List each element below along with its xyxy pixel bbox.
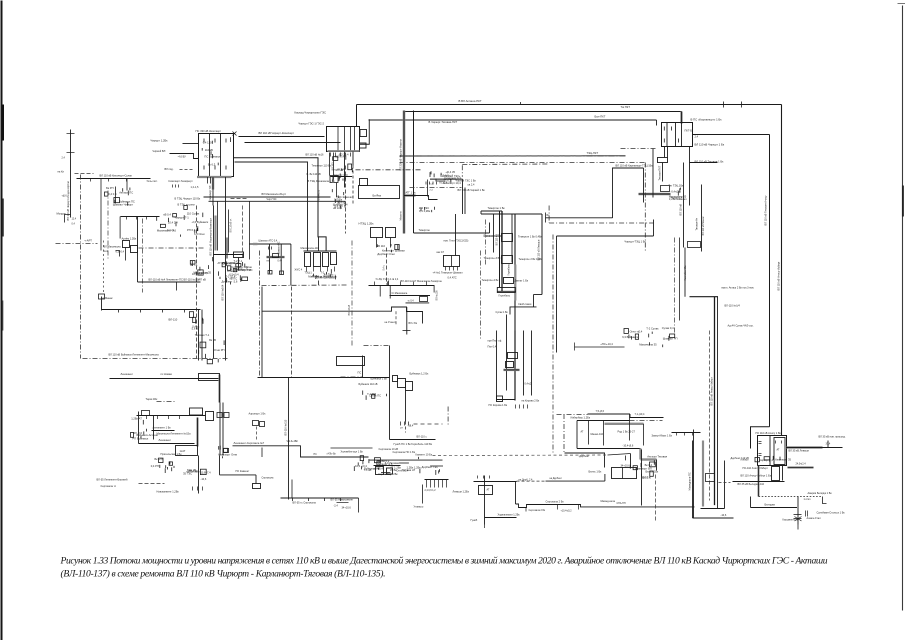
wire dash-dot Buinaksk-Leninkent y358 xyxy=(83,353,228,359)
svg-text:ВЛ №105: ВЛ №105 xyxy=(318,189,321,200)
svg-text:В ВЛ Акташи-ПКТ: В ВЛ Акташи-ПКТ xyxy=(459,99,482,103)
svg-text:0,4 АТС: 0,4 АТС xyxy=(448,276,457,280)
svg-text:на Учкент: на Учкент xyxy=(385,321,397,324)
svg-text:ВЛ с Бк: ВЛ с Бк xyxy=(409,322,418,325)
svg-text:на Манас: на Манас xyxy=(102,296,114,300)
cluster below x198 xyxy=(200,342,206,348)
svg-text:Шамхал АТС 0,4: Шамхал АТС 0,4 xyxy=(259,240,278,243)
svg-text:(ВЛ-110-137) в схеме ремонта: (ВЛ-110-137) в схеме ремонта ВЛ 110 кВ Ч… xyxy=(61,569,386,580)
wire Miatli vertical x403 xyxy=(399,111,405,234)
labels mid-right xyxy=(722,286,755,328)
wire Belidzhi line y496 xyxy=(759,491,833,504)
wire dash-dot x447 xyxy=(447,407,449,427)
svg-text:ВЛ 110 №104: ВЛ 110 №104 xyxy=(221,284,225,300)
svg-text:Сев-ПС: Сев-ПС xyxy=(223,262,232,266)
svg-text:0,4+j2: 0,4+j2 xyxy=(525,383,532,386)
svg-text:Утамыш: Утамыш xyxy=(414,505,424,509)
wire dash x552 xyxy=(552,235,554,454)
svg-text:ПС: ПС xyxy=(314,454,318,456)
wire x541 elbow xyxy=(496,214,543,315)
substation Gergebil boxes xyxy=(482,234,544,298)
svg-text:Шамхал-ПС: Шамхал-ПС xyxy=(279,241,281,254)
wire bus y217.3 xyxy=(546,213,647,244)
svg-text:Тяговая-Ач: Тяговая-Ач xyxy=(696,217,699,230)
svg-text:Т-2 Сулак: Т-2 Сулак xyxy=(646,326,659,330)
wires Chiryurt right drops x329/x333 xyxy=(330,153,339,198)
svg-text:Махачкала 35: Махачкала 35 xyxy=(639,343,657,347)
wire central verticals xyxy=(481,211,516,341)
wire Novaya bus y378 xyxy=(110,372,220,403)
svg-text:«ЧЭ»-Бк: «ЧЭ»-Бк xyxy=(327,454,337,456)
wire Artyom bus y216 xyxy=(121,217,160,283)
svg-text:37,4: 37,4 xyxy=(826,443,831,446)
svg-text:ВЛ 110 кВ: ВЛ 110 кВ xyxy=(349,304,351,315)
svg-text:110 кВ: 110 кВ xyxy=(205,148,213,152)
svg-text:Буйнакск Акташи: Буйнакск Акташи xyxy=(137,433,159,437)
svg-text:Ст.Махачкала: Ст.Махачкала xyxy=(392,292,408,295)
wire grey bar y467 xyxy=(788,463,814,468)
svg-text:110 ГЭС: 110 ГЭС xyxy=(419,206,429,210)
svg-text:Чиркей ВЛ: Чиркей ВЛ xyxy=(153,149,166,153)
svg-text:ПС 330 кВ Кизилюрт: ПС 330 кВ Кизилюрт xyxy=(196,129,222,133)
svg-text:на Ки: на Ки xyxy=(58,170,65,174)
labels right of Karlanyurt taps xyxy=(669,184,684,200)
svg-text:АТ: АТ xyxy=(487,489,490,492)
svg-text:Буйнакск 110 кВ: Буйнакск 110 кВ xyxy=(359,382,378,386)
svg-text:ВЛ 110 кВ Карланюрт-ТЭЦ 1Бк: ВЛ 110 кВ Карланюрт-ТЭЦ 1Бк xyxy=(616,164,654,168)
svg-text:ПС-110 Ачису-Изберг: ПС-110 Ачису-Изберг xyxy=(743,466,768,470)
svg-text:Шамхал 0,4: Шамхал 0,4 xyxy=(333,203,348,207)
substation Karlanyurt box xyxy=(662,118,723,147)
svg-text:Кизилюрт Огни: Кизилюрт Огни xyxy=(218,452,237,456)
svg-text:1,2-1,5: 1,2-1,5 xyxy=(191,185,200,189)
svg-text:Буйнакск ПС: Буйнакск ПС xyxy=(119,200,135,204)
wire dashed x386 xyxy=(383,248,387,285)
svg-text:Темиргое 1 Бк: Темиргое 1 Бк xyxy=(488,206,506,210)
svg-text:СПА-НН: СПА-НН xyxy=(617,502,626,505)
cluster mid centre (Sev PS) xyxy=(104,241,253,295)
svg-text:ВЛ Махачкала 20+j4: ВЛ Махачкала 20+j4 xyxy=(262,192,287,196)
svg-text:Огни +j0,4: Огни +j0,4 xyxy=(630,329,643,333)
svg-text:ВЛ 110 Ачису-Изберг 1 Бк: ВЛ 110 Ачису-Изберг 1 Бк xyxy=(741,474,772,478)
svg-text:ВЛ-110: ВЛ-110 xyxy=(169,318,178,322)
svg-text:2,4 0,6 1,2: 2,4 0,6 1,2 xyxy=(425,490,437,492)
svg-text:Каякент 10 Бк: Каякент 10 Бк xyxy=(416,453,433,457)
svg-text:13,8+7,4: 13,8+7,4 xyxy=(201,471,212,475)
wire buses Kizilyurt-Chiryurt xyxy=(239,131,341,143)
svg-text:Дербент 110 кВ: Дербент 110 кВ xyxy=(731,456,750,460)
substation Derbent node box xyxy=(589,454,660,479)
svg-text:-10,6: -10,6 xyxy=(721,513,727,517)
svg-text:Чирюрт 2,4: Чирюрт 2,4 xyxy=(759,458,773,462)
svg-text:Сергокала 2 Бк: Сергокала 2 Бк xyxy=(546,500,565,504)
svg-text:Узлы пит.: Узлы пит. xyxy=(147,179,158,183)
labels left Makhachkala xyxy=(104,245,122,254)
svg-text:ТЭЦ-ПКТ: ТЭЦ-ПКТ xyxy=(587,151,599,155)
svg-text:Тяговая Т-1: Тяговая Т-1 xyxy=(195,333,210,337)
wire dash-dot y164 and Chirkey line y178.6 xyxy=(430,164,549,214)
svg-text:на Дербент: на Дербент xyxy=(550,478,563,480)
wire dash-dot y285 xyxy=(262,284,348,287)
svg-text:ВЛ 110 кВ Тяговая-Ачису: ВЛ 110 кВ Тяговая-Ачису xyxy=(764,195,768,226)
svg-text:Белиджи: Белиджи xyxy=(765,503,776,507)
wire Belidzhi line y507 xyxy=(751,497,798,508)
svg-text:Буйнакск 1 Бк: Буйнакск 1 Бк xyxy=(371,377,388,381)
svg-text:Чирюрт 1,2Бк: Чирюрт 1,2Бк xyxy=(151,139,169,143)
svg-text:Сергокала 10 кВ: Сергокала 10 кВ xyxy=(379,447,399,451)
svg-text:св Т-1: св Т-1 xyxy=(190,263,198,267)
svg-text:ВЛ 110 кВ Леваши: ВЛ 110 кВ Леваши xyxy=(538,239,541,260)
wire grey bar y447 xyxy=(787,435,846,453)
svg-text:ГЭС кВ: ГЭС кВ xyxy=(334,168,343,172)
svg-text:Мамедкала-ПС: Мамедкала-ПС xyxy=(688,472,692,490)
svg-text:Сулак 0,4: Сулак 0,4 xyxy=(662,326,674,330)
svg-text:Буйнакск РП: Буйнакск РП xyxy=(364,467,380,471)
svg-text:Темиргое-3 Бк: Темиргое-3 Бк xyxy=(484,256,502,260)
svg-text:Чирюрт-ТЭЦ 1 Бк: Чирюрт-ТЭЦ 1 Бк xyxy=(625,240,647,244)
substation Izberbash inner box xyxy=(571,414,673,449)
svg-text:ВЛ 110 кВ Чирюрт 1 Бк: ВЛ 110 кВ Чирюрт 1 Бк xyxy=(695,143,725,147)
wire Shamkhal bus y243.5 xyxy=(249,240,303,286)
svg-text:ВЛ-35 Новокаякент: ВЛ-35 Новокаякент xyxy=(331,498,355,502)
wire Halimbekaul labels xyxy=(331,448,373,454)
cluster bottom far left labels xyxy=(331,498,355,508)
svg-text:110 0,4: 110 0,4 xyxy=(335,154,344,158)
svg-text:Гуниб: Гуниб xyxy=(471,518,478,522)
svg-text:-2,6 кВ: -2,6 кВ xyxy=(191,327,200,331)
svg-text:ВЛ 110 кВ уч.: ВЛ 110 кВ уч. xyxy=(231,218,233,233)
svg-text:ВЛ-110 №1/4: ВЛ-110 №1/4 xyxy=(725,304,741,308)
wire top bus 3 y119.5 xyxy=(369,115,657,126)
wire dash-dot y248 xyxy=(139,247,204,249)
svg-text:-10,6: -10,6 xyxy=(201,477,207,481)
svg-text:при Пке т.ф.: при Пке т.ф. xyxy=(488,339,503,343)
svg-text:Махачкала-Ленинкент №15а: Махачкала-Ленинкент №15а xyxy=(157,432,192,436)
wire south elbow double x307/x317 xyxy=(234,153,336,252)
svg-text:Ад-АЧ Сулак ЧАЭ стр.: Ад-АЧ Сулак ЧАЭ стр. xyxy=(728,324,754,328)
svg-text:ГЭС Шамхал: ГЭС Шамхал xyxy=(337,195,354,199)
svg-text:Кизилюрт-Темирюрт: Кизилюрт-Темирюрт xyxy=(169,179,194,183)
svg-text:Тяг.ПКТ: Тяг.ПКТ xyxy=(621,105,631,109)
wire bus y465 with boxes xyxy=(374,447,401,475)
svg-text:В. Бк 110 кВ: В. Бк 110 кВ xyxy=(307,172,321,176)
svg-text:Кизилюрт 35: Кизилюрт 35 xyxy=(775,458,791,462)
svg-text:1 откл: 1 откл xyxy=(804,498,812,501)
substation column x641 xyxy=(621,450,668,521)
substation big cluster Leninkent xyxy=(131,397,369,468)
wire elbow Karlanyurt-TETs xyxy=(613,164,654,219)
svg-text:-10,4-j9,6: -10,4-j9,6 xyxy=(623,444,634,448)
svg-text:Ленинкент: Ленинкент xyxy=(159,438,172,442)
wire Izberbash bottom elbow xyxy=(565,449,657,471)
svg-text:-18,4: -18,4 xyxy=(408,424,414,428)
svg-text:Темиргое 1 Бк 0,4Бк: Темиргое 1 Бк 0,4Бк xyxy=(518,235,543,239)
svg-text:пс Новая: пс Новая xyxy=(161,372,173,376)
wire top bus 2 y111 xyxy=(403,112,682,124)
cluster below Kizilyurt xyxy=(160,224,165,227)
box left bottom x336 xyxy=(337,357,365,366)
svg-text:Тяговая ПКТ: Тяговая ПКТ xyxy=(658,165,662,180)
svg-text:0,4 с: 0,4 с xyxy=(383,264,386,270)
svg-text:кВ 110: кВ 110 xyxy=(377,244,386,248)
wire bus y176 left xyxy=(331,177,353,180)
svg-text:Закир-Айзах 1 Бк: Закир-Айзах 1 Бк xyxy=(652,434,673,438)
wire VL 110 kV top bus to Aktashi y104 xyxy=(357,99,782,109)
svg-text:Т-1 110: Т-1 110 xyxy=(367,392,377,396)
svg-text:АТ: АТ xyxy=(777,449,780,452)
svg-text:Кизилюрт ВЛ: Кизилюрт ВЛ xyxy=(209,185,212,200)
wire x693 vertical xyxy=(672,430,701,519)
svg-text:Рад 1 Бк 23-27: Рад 1 Бк 23-27 xyxy=(618,430,636,434)
substation bottom-left tail xyxy=(97,456,212,494)
bus group PS Kirova verticals xyxy=(488,315,541,409)
cluster left column below Chiryurt xyxy=(332,153,354,211)
svg-text:Чирюрт Т-1: Чирюрт Т-1 xyxy=(175,216,190,220)
substation PS Achisu xyxy=(756,431,787,466)
svg-text:Избербаш 1,2Бк: Избербаш 1,2Бк xyxy=(571,416,591,420)
svg-text:тс 0,4: тс 0,4 xyxy=(408,300,415,302)
wire staircase y306-311 xyxy=(262,307,423,335)
wire dash vertical x351.5 xyxy=(349,241,352,346)
svg-text:ВЛ 110 кВ Манас: ВЛ 110 кВ Манас xyxy=(702,216,705,236)
substation small box x359 y178 xyxy=(359,179,400,199)
svg-text:0,4 РП: 0,4 РП xyxy=(151,464,159,468)
svg-text:Сулак Т-1: Сулак Т-1 xyxy=(324,274,337,278)
substation Kizilyurt-330 box xyxy=(196,129,237,184)
svg-text:6,3 Тяговая: 6,3 Тяговая xyxy=(385,461,400,465)
svg-text:Бк 6,3: Бк 6,3 xyxy=(208,162,216,166)
svg-text:Манас-110: Манас-110 xyxy=(591,432,604,436)
svg-text:АТГ 1 Бк: АТГ 1 Бк xyxy=(406,191,417,195)
svg-text:ВЛ-35 тс Сергокала: ВЛ-35 тс Сергокала xyxy=(293,501,317,505)
svg-text:ВЛ 110 кВ Махачкала-Кизилюрт: ВЛ 110 кВ Махачкала-Кизилюрт xyxy=(209,217,213,255)
svg-text:-4,6 ВУ: -4,6 ВУ xyxy=(178,155,187,159)
wire dashed x291 xyxy=(291,287,293,378)
wire tick row y479 xyxy=(379,472,449,492)
svg-text:«ПС»-10,4: «ПС»-10,4 xyxy=(601,342,614,346)
svg-text:Ашага-Стал: Ашага-Стал xyxy=(807,516,822,520)
svg-text:Каскад Чирюртских ГЭС: Каскад Чирюртских ГЭС xyxy=(295,111,327,115)
svg-text:ВЛ 35 кВ нов. присоед.: ВЛ 35 кВ нов. присоед. xyxy=(819,435,846,439)
cluster x195 y310 xyxy=(189,310,203,361)
svg-text:ПС 0,4: ПС 0,4 xyxy=(439,181,448,185)
svg-text:Сулейман-Стальск 1 Бк: Сулейман-Стальск 1 Бк xyxy=(817,511,846,515)
svg-text:ВЛ 35 кВ Леваши: ВЛ 35 кВ Леваши xyxy=(789,449,810,453)
svg-text:+j0,4 35: +j0,4 35 xyxy=(445,170,455,174)
svg-text:ПС Буйнакск: ПС Буйнакск xyxy=(204,154,221,158)
svg-text:Новокаякент 1,2Бк: Новокаякент 1,2Бк xyxy=(157,490,180,494)
svg-text:В ТЭЦ Чирюрт 110 Бк: В ТЭЦ Чирюрт 110 Бк xyxy=(175,197,202,201)
substation Temirgoe xyxy=(433,214,469,280)
svg-text:Чирюрт ГЭС-1 ГЭС-2: Чирюрт ГЭС-1 ГЭС-2 xyxy=(299,122,325,126)
svg-text:-2,6 Буйнакск: -2,6 Буйнакск xyxy=(192,220,209,224)
wire verticals x257 x261 xyxy=(260,251,263,378)
svg-text:Акташ 0,4: Акташ 0,4 xyxy=(671,196,683,200)
wire Utamysh xyxy=(414,485,424,509)
wire x362 stub xyxy=(341,356,363,378)
svg-text:ПС 110 кВ Ачису 1 Бк: ПС 110 кВ Ачису 1 Бк xyxy=(756,431,782,435)
svg-text:Сергокала: Сергокала xyxy=(262,477,275,480)
wire bus y377 xyxy=(258,377,390,379)
svg-text:Сергокала тс: Сергокала тс xyxy=(101,484,117,488)
wire Derbent bus y481 xyxy=(719,456,792,486)
wires Kizilyurt below xyxy=(147,177,226,213)
svg-text:Темиргое 110 Бк: Темиргое 110 Бк xyxy=(312,164,332,168)
svg-text:24,0+j2,4: 24,0+j2,4 xyxy=(796,463,807,466)
svg-text:Сергокала 2 Бк: Сергокала 2 Бк xyxy=(529,510,546,512)
wire dashes y423 xyxy=(414,423,443,425)
svg-text:Огни РП: Огни РП xyxy=(214,348,225,352)
svg-text:Миатли: Миатли xyxy=(399,211,403,221)
svg-text:2,4: 2,4 xyxy=(695,135,699,139)
wire dash-dot stub y148 xyxy=(621,148,657,150)
wire Kizilyurt-Sulak bus y178 xyxy=(77,174,151,182)
svg-text:РП кВ: РП кВ xyxy=(198,277,206,281)
wire x288 south xyxy=(284,378,289,500)
svg-text:ч-АРТ: ч-АРТ xyxy=(85,239,93,243)
substation Chiryurt GES xyxy=(295,111,370,152)
svg-text:Сулак 1 Бк: Сулак 1 Бк xyxy=(496,311,509,314)
svg-text:как АТ: как АТ xyxy=(437,250,445,254)
svg-text:Халимбек-аул 1 Бк: Халимбек-аул 1 Бк xyxy=(341,450,364,454)
wire line to Zelenaya xyxy=(575,342,625,351)
svg-text:12,4: 12,4 xyxy=(72,219,77,221)
svg-text:св.2,4: св.2,4 xyxy=(468,183,475,187)
wire VL Mozdok x70 xyxy=(62,130,75,221)
wire dash-dot y162 xyxy=(400,163,646,251)
svg-text:Тарки 1Бк: Тарки 1Бк xyxy=(146,397,159,401)
svg-text:Леваши 1,2Бк: Леваши 1,2Бк xyxy=(453,490,470,494)
svg-text:ВЛ 110 кВ Кизилюрт-Сулак: ВЛ 110 кВ Кизилюрт-Сулак xyxy=(100,174,133,178)
substation NTETs xyxy=(359,222,406,257)
wire elbow VB to box xyxy=(741,427,770,462)
svg-text:Ленинкент: Ленинкент xyxy=(121,372,134,376)
svg-text:Гергебиль: Гергебиль xyxy=(499,295,511,298)
svg-text:Пке 0,4: Пке 0,4 xyxy=(488,345,497,349)
right page border xyxy=(898,4,905,611)
svg-text:6,3 Огни: 6,3 Огни xyxy=(194,232,205,236)
wire dash y452-455 long xyxy=(433,454,608,457)
svg-text:Авария Белидж 1 Бк: Авария Белидж 1 Бк xyxy=(808,491,833,495)
svg-text:ВЛ-110 №115: ВЛ-110 №115 xyxy=(284,419,288,435)
wire Leninkent label bus y281.5 xyxy=(138,278,201,291)
svg-text:АТ 1,2Бк: АТ 1,2Бк xyxy=(390,465,401,469)
svg-text:6,3 Буйнакск: 6,3 Буйнакск xyxy=(622,335,639,339)
wire dash-dot verticals left xyxy=(81,175,105,359)
svg-text:нов. Тепл-ГЭС(1X25): нов. Тепл-ГЭС(1X25) xyxy=(444,239,469,243)
wire x652.5 drop xyxy=(652,149,654,198)
svg-text:ВЛ 110 кВ Чирюрт-Кизилюрт: ВЛ 110 кВ Чирюрт-Кизилюрт xyxy=(259,131,295,135)
svg-text:Кизилюрт Шамхал: Кизилюрт Шамхал xyxy=(382,248,405,252)
svg-text:Мамед-кала: Мамед-кала xyxy=(601,499,616,503)
wires Kizilyurt bottom buses xyxy=(175,192,346,260)
svg-text:Двигат 1 Бк: Двигат 1 Бк xyxy=(515,279,529,283)
svg-text:Кизилюрт 6,3: Кизилюрт 6,3 xyxy=(444,176,461,180)
svg-text:Белес 1 Бк: Белес 1 Бк xyxy=(589,470,603,474)
svg-text:35 10,4: 35 10,4 xyxy=(641,475,650,479)
svg-text:Ба-Ява: Ба-Ява xyxy=(373,194,382,198)
wire bottom-left bus y309 xyxy=(102,296,201,322)
substation Levashi xyxy=(453,474,695,528)
wire dash stub y173 xyxy=(58,170,94,174)
wire dash-dot y222.5 xyxy=(549,206,653,224)
svg-text:ВЛ Махачкала: ВЛ Махачкала xyxy=(104,245,122,249)
cluster Sergokala top band xyxy=(354,450,443,475)
svg-text:ВЛ 330 кВ Чиркей 1 Бк: ВЛ 330 кВ Чиркей 1 Бк xyxy=(458,188,486,192)
wire x797 vertical + transformer xyxy=(783,497,846,530)
svg-text:ПС Каякент: ПС Каякент xyxy=(236,469,251,473)
svg-text:Бк кВ: Бк кВ xyxy=(209,338,216,342)
svg-text:ВЛ 330 кВ Чирюрт-Миатли: ВЛ 330 кВ Чирюрт-Миатли xyxy=(399,139,403,171)
substation Buinaksk xyxy=(359,372,430,433)
svg-text:ПС: ПС xyxy=(358,371,362,375)
wire grey bar y193.5 xyxy=(639,193,671,196)
labels Salavat / Chirkey xyxy=(430,170,486,192)
svg-text:Кизилюрт Сулак: Кизилюрт Сулак xyxy=(232,265,253,269)
wire bus y254 xyxy=(214,252,253,280)
wires below Chiryurt GES xyxy=(331,152,354,234)
wire Karlanyurt to x781 y134 xyxy=(693,135,770,427)
svg-text:Рисунок 1.33 Потоки мощности и: Рисунок 1.33 Потоки мощности и уровни на… xyxy=(60,556,828,567)
svg-text:-0,5+j0,4: -0,5+j0,4 xyxy=(229,273,240,277)
svg-text:Темиргое: Темиргое xyxy=(419,228,431,232)
wire dash-dot y187 xyxy=(410,187,462,189)
wire TETs upper line y155 xyxy=(400,151,626,156)
svg-text:-2,4: -2,4 xyxy=(334,505,339,508)
cluster Sulak xyxy=(114,198,120,203)
svg-text:Присельская 1 Бк: Присельская 1 Бк xyxy=(161,452,183,456)
svg-text:-Дербент: -Дербент xyxy=(579,454,591,458)
svg-text:Тяг ТЭЦ 1Бк: Тяг ТЭЦ 1Бк xyxy=(669,184,684,188)
svg-text:+j0,6: +j0,6 xyxy=(62,196,68,198)
wire vertical x701 xyxy=(684,185,705,281)
svg-text:Акташи ПС: Акташи ПС xyxy=(119,191,133,195)
wire dash-dot Mozdok y243 xyxy=(56,212,98,244)
svg-text:0,4 св: 0,4 св xyxy=(167,228,175,232)
svg-text:Уч-Вр Уч2 0,4 св 2,4: Уч-Вр Уч2 0,4 св 2,4 xyxy=(376,278,399,281)
wire heavy elbow y296 and x714 column xyxy=(688,297,719,509)
wire dash-dot y169.3 xyxy=(356,169,421,171)
svg-text:на Дерб. 2,4: на Дерб. 2,4 xyxy=(519,479,534,482)
svg-text:Гергебиль: Гергебиль xyxy=(508,263,511,275)
svg-text:Бк РП: Бк РП xyxy=(106,186,113,190)
svg-text:Касумкент пс: Касумкент пс xyxy=(783,518,799,522)
svg-text:Ленинкент-Сергокала №7: Ленинкент-Сергокала №7 xyxy=(234,441,265,445)
wire Gunib vertical x389 xyxy=(364,346,436,447)
svg-text:ВЛ №105: ВЛ №105 xyxy=(436,290,439,301)
svg-text:ВЛ 330: ВЛ 330 xyxy=(332,162,335,171)
svg-text:ЖУС 4: ЖУС 4 xyxy=(295,269,303,272)
svg-text:ВЛ под.: ВЛ под. xyxy=(165,167,174,171)
svg-text:Темиргое-2 Бк: Темиргое-2 Бк xyxy=(484,234,502,238)
svg-text:Шамхал РП: Шамхал РП xyxy=(663,337,678,341)
svg-text:Чир-ГЭС: Чир-ГЭС xyxy=(267,198,277,201)
svg-text:110 Сулак: 110 Сулак xyxy=(187,212,200,216)
svg-text:Темиргое-4 Бк: Темиргое-4 Бк xyxy=(482,278,500,282)
labels below Achisu xyxy=(741,466,783,497)
wire dash-dot y155 from x399 xyxy=(400,155,626,157)
svg-text:ПС Кирова 1 Бк: ПС Кирова 1 Бк xyxy=(489,403,508,407)
svg-text:Бк -2,6: Бк -2,6 xyxy=(155,457,164,461)
wire dash-dot x674 and x679 xyxy=(675,238,680,333)
svg-text:Каспийск 1Бк: Каспийск 1Бк xyxy=(684,265,687,281)
svg-text:ВЛ 110 кВ Ачису-Изберг: ВЛ 110 кВ Ачису-Изберг xyxy=(777,262,781,291)
svg-text:ПКТ-Б: ПКТ-Б xyxy=(685,129,693,133)
svg-text:кВ 0,4: кВ 0,4 xyxy=(163,213,171,217)
svg-text:ВЛ-110 №117 Махачкала-Темиргое: ВЛ-110 №117 Махачкала-Темиргое xyxy=(401,279,443,283)
svg-text:НТЭЦ 1,2Бк: НТЭЦ 1,2Бк xyxy=(359,222,375,226)
wire ATG grey bar y195 xyxy=(405,191,438,213)
